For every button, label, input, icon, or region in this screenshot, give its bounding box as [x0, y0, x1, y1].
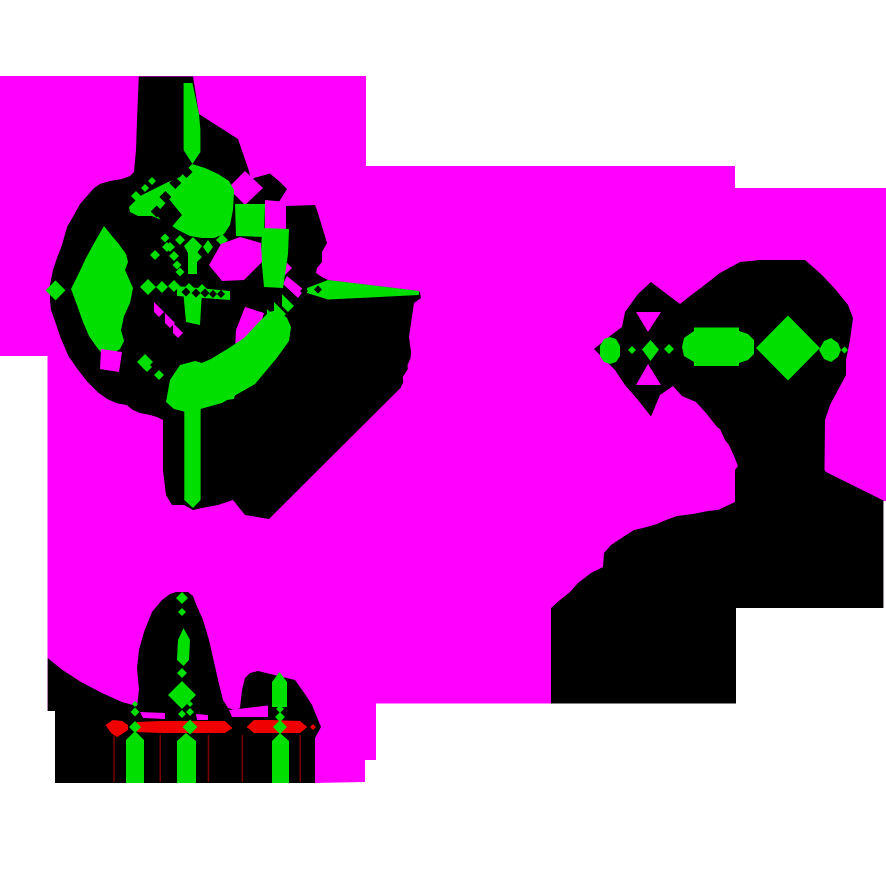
red band bottom structure [140, 712, 165, 719]
black diamond chains over greens (left structure) [181, 166, 193, 178]
bottom-left structure black [48, 592, 321, 783]
SW chain green diamonds [282, 294, 294, 312]
greens: right structure [600, 337, 620, 364]
magenta holes: left structure [228, 171, 263, 205]
left structure black hull [50, 77, 421, 520]
green stripes over/below red [126, 731, 144, 783]
greens: bottom structure [176, 592, 188, 604]
right structure + bottom-right blob black [551, 260, 883, 704]
band-end diamonds [137, 354, 153, 370]
interior flower green diamonds [150, 250, 160, 260]
dark red hairlines [113, 735, 115, 782]
small green diamonds axis [140, 279, 156, 295]
magenta field [0, 76, 886, 783]
magenta holes: right structure wings [636, 312, 661, 332]
NE chain green diamonds [131, 191, 141, 201]
greens: left structure [184, 83, 201, 164]
